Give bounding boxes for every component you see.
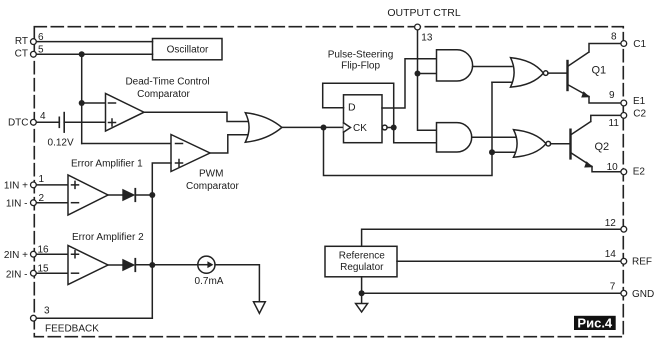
svg-text:Comparator: Comparator (137, 89, 190, 100)
svg-text:GND: GND (632, 289, 654, 300)
svg-text:C2: C2 (633, 109, 646, 120)
svg-text:FEEDBACK: FEEDBACK (45, 324, 99, 335)
svg-text:6: 6 (38, 32, 44, 43)
svg-text:1: 1 (39, 174, 45, 185)
svg-text:11: 11 (609, 118, 620, 129)
svg-text:Error Amplifier 1: Error Amplifier 1 (71, 159, 143, 170)
svg-text:1IN +: 1IN + (4, 181, 28, 192)
svg-text:3: 3 (44, 306, 50, 317)
svg-text:Oscillator: Oscillator (167, 45, 209, 56)
svg-text:16: 16 (38, 245, 50, 256)
svg-text:Flip-Flop: Flip-Flop (341, 61, 380, 72)
svg-text:Comparator: Comparator (186, 181, 239, 192)
svg-text:RT: RT (15, 36, 28, 47)
svg-text:Pulse-Steering: Pulse-Steering (328, 49, 394, 60)
svg-text:REF: REF (632, 257, 652, 268)
svg-text:2IN +: 2IN + (4, 250, 28, 261)
svg-text:9: 9 (609, 90, 615, 101)
svg-text:CK: CK (353, 123, 367, 134)
svg-text:2IN -: 2IN - (6, 269, 28, 280)
svg-text:D: D (348, 102, 356, 114)
svg-text:E2: E2 (633, 167, 646, 178)
svg-text:Q1: Q1 (592, 65, 607, 77)
svg-text:12: 12 (605, 218, 617, 229)
svg-text:Q2: Q2 (595, 141, 610, 153)
svg-text:Reference: Reference (339, 251, 386, 262)
svg-text:15: 15 (38, 263, 50, 274)
svg-text:PWM: PWM (199, 169, 223, 180)
svg-text:DTC: DTC (8, 118, 29, 129)
svg-text:14: 14 (605, 249, 617, 260)
svg-text:Error Amplifier 2: Error Amplifier 2 (72, 232, 144, 243)
svg-text:Regulator: Regulator (340, 262, 384, 273)
svg-text:1IN -: 1IN - (6, 199, 28, 210)
svg-text:0.12V: 0.12V (48, 137, 74, 148)
svg-text:C1: C1 (633, 39, 646, 50)
svg-text:10: 10 (607, 162, 619, 173)
svg-text:0.7mA: 0.7mA (195, 276, 224, 287)
svg-text:Рис.4: Рис.4 (577, 315, 613, 330)
svg-text:E1: E1 (633, 96, 646, 107)
svg-text:4: 4 (40, 111, 46, 122)
svg-text:5: 5 (38, 44, 44, 55)
svg-text:8: 8 (611, 32, 617, 43)
svg-text:CT: CT (15, 48, 28, 59)
svg-text:7: 7 (610, 282, 616, 293)
svg-text:OUTPUT CTRL: OUTPUT CTRL (387, 7, 460, 19)
svg-text:2: 2 (39, 193, 45, 204)
svg-text:Dead-Time Control: Dead-Time Control (125, 76, 209, 87)
svg-text:13: 13 (421, 32, 433, 43)
